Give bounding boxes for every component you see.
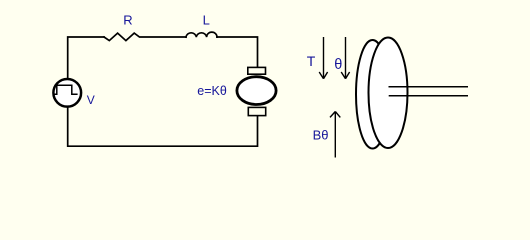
- svg-text:L: L: [203, 12, 210, 27]
- svg-text:Bθ: Bθ: [313, 127, 329, 142]
- svg-text:R: R: [123, 12, 132, 27]
- svg-text:V: V: [87, 93, 95, 107]
- svg-text:e=Kθ: e=Kθ: [197, 84, 227, 98]
- svg-text:T: T: [307, 53, 316, 69]
- svg-text:θ: θ: [334, 57, 342, 73]
